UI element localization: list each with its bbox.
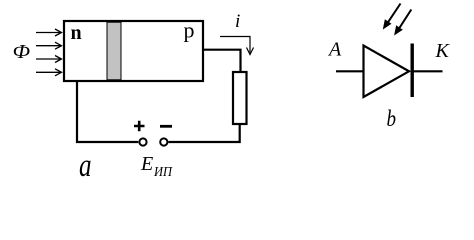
- battery terminal circle (plus): [139, 138, 146, 145]
- photon flux arrow 2: [36, 42, 62, 49]
- plus sign: [134, 121, 145, 131]
- svg-text:p: p: [184, 18, 195, 43]
- light arrow 1: [384, 4, 401, 29]
- wire from plus terminal to block: [77, 81, 138, 142]
- battery terminal circle (minus): [160, 138, 167, 145]
- source label E ИП: [140, 153, 173, 180]
- p-n junction stripe: [107, 22, 121, 80]
- wire from resistor to minus terminal: [168, 124, 239, 142]
- svg-text:b: b: [387, 106, 397, 132]
- svg-text:i: i: [235, 11, 240, 32]
- svg-text:А: А: [327, 39, 342, 61]
- photon flux arrow 3: [36, 56, 62, 63]
- diode cathode bar: [411, 44, 414, 98]
- wire from block to resistor: [203, 50, 241, 71]
- svg-text:a: a: [79, 148, 92, 184]
- svg-text:Е: Е: [140, 153, 153, 175]
- light arrow 2: [395, 10, 412, 35]
- svg-text:n: n: [71, 22, 82, 44]
- photon flux arrow 1: [36, 29, 62, 36]
- diode anode lead wire: [336, 70, 363, 72]
- svg-text:Ф: Ф: [13, 41, 31, 63]
- current direction arrow: [220, 37, 254, 55]
- semiconductor block: [64, 21, 203, 81]
- diode cathode lead wire: [412, 70, 443, 72]
- svg-text:К: К: [435, 40, 451, 62]
- photodiode D1 triangle: [364, 46, 410, 98]
- photon flux arrow 4: [36, 69, 62, 76]
- resistor R (load): [233, 72, 247, 124]
- minus sign: [160, 125, 172, 128]
- svg-text:ИП: ИП: [153, 165, 173, 180]
